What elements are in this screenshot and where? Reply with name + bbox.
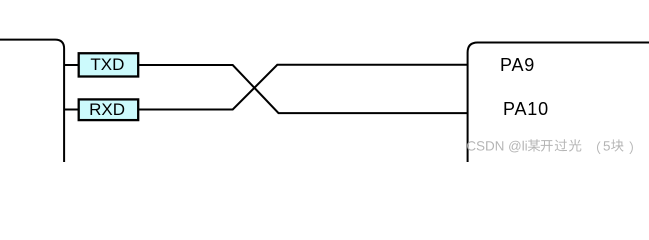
watermark char ） [629,141,633,154]
watermark digit 5 [604,141,610,150]
STM32 outline (right device, partially off-canvas) [468,42,649,162]
svg-text:TXD: TXD [90,55,124,74]
watermark char （ [597,141,601,154]
wire TXD stub (left device to TXD box) [64,64,79,66]
watermark text CSDN @li [467,141,527,153]
svg-text:PA10: PA10 [503,99,549,119]
watermark char 某 [528,139,541,151]
watermark char 过 [555,139,568,151]
pin label box TXD [79,53,139,76]
watermark char 光 [569,139,582,151]
watermark char 块 [611,139,624,151]
svg-text:PA9: PA9 [500,55,535,75]
pin label box RXD [79,99,139,120]
wire TXD to PA10 (crossover: upper-left to lower-right) [138,65,467,113]
wire RXD stub (left device to RXD box) [64,109,79,111]
svg-text:RXD: RXD [89,100,125,119]
wire RXD to PA9 (crossover: lower-left to upper-right) [138,65,467,110]
USB-TTL module outline (left device, partially off-canvas) [0,40,64,162]
watermark char 开 [541,140,553,152]
